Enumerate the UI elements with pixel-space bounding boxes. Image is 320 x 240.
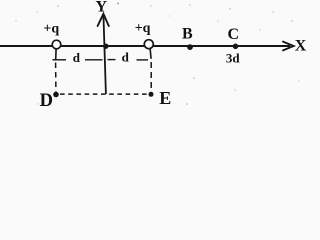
charge q2 (right +q)	[144, 40, 153, 49]
stub below q1	[55, 49, 57, 60]
X axis arrowhead	[283, 42, 294, 51]
dimension line left (segment 1)	[52, 59, 66, 61]
charge q1 (left +q)	[52, 40, 61, 49]
origin node dot	[103, 44, 108, 49]
svg-text:d: d	[73, 50, 81, 65]
svg-text:D: D	[40, 91, 53, 111]
Y axis arrowhead	[98, 14, 109, 26]
svg-text:Y: Y	[96, 0, 108, 16]
dimension line right (segment 2)	[137, 59, 149, 61]
Y axis	[103, 14, 106, 94]
stub below q2	[150, 49, 151, 59]
dimension line left (segment 2)	[85, 59, 103, 61]
svg-text:B: B	[182, 26, 193, 43]
point D dot	[53, 92, 59, 98]
dashed horizontal wire D to E	[60, 93, 147, 95]
dashed vertical wire q2 to E	[150, 62, 152, 92]
svg-text:E: E	[159, 88, 171, 108]
svg-text:d: d	[122, 50, 130, 65]
point E dot	[149, 92, 154, 97]
svg-text:+q: +q	[43, 21, 59, 36]
X axis	[0, 45, 290, 47]
dimension line right (segment 1)	[108, 59, 116, 61]
svg-text:+q: +q	[135, 21, 151, 36]
dashed vertical wire q1 to D	[55, 63, 57, 92]
svg-text:3d: 3d	[226, 51, 241, 66]
point C dot	[233, 44, 239, 50]
svg-text:C: C	[228, 26, 240, 43]
point B dot	[187, 44, 193, 50]
svg-text:X: X	[295, 38, 307, 55]
